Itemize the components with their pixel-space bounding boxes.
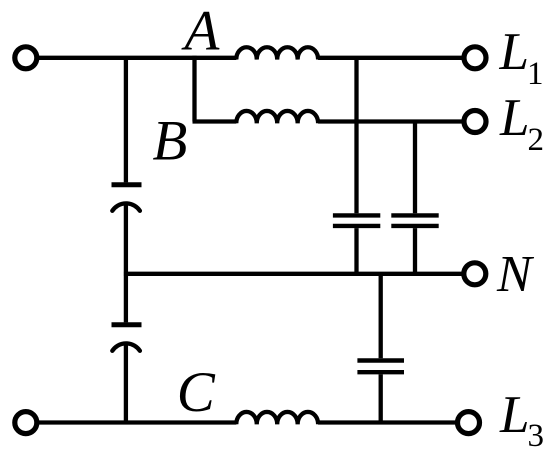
wire left column top (A node down to arrester 1) — [124, 58, 128, 183]
terminal N — [464, 263, 486, 285]
surge arrester G2 top plate — [112, 322, 142, 327]
wire phase-A left segment — [36, 56, 236, 60]
svg-text:C: C — [177, 361, 216, 424]
wire neutral N horizontal — [124, 272, 464, 276]
svg-text:B: B — [153, 110, 188, 173]
terminal input top-left — [15, 47, 37, 69]
inductor L-B (phase B choke) — [236, 111, 318, 123]
wire cap column 2 upper segment — [413, 122, 417, 214]
wire phase-B right segment to L2 — [318, 119, 464, 123]
wire phase-C left segment — [36, 420, 236, 424]
surge arrester G1 arc electrode — [112, 203, 140, 210]
wire cap column 3 upper segment — [379, 274, 383, 359]
inductor L-A (phase A choke) — [236, 47, 318, 59]
wire cap column 2 lower segment — [413, 228, 417, 274]
svg-text:N: N — [496, 246, 535, 303]
capacitor C1 bottom plate — [333, 224, 380, 228]
capacitor C3 top plate — [357, 358, 404, 362]
capacitor C3 bottom plate — [357, 370, 404, 374]
capacitor C2 top plate — [391, 213, 438, 217]
wire cap column 1 lower segment — [354, 228, 358, 274]
terminal L1 — [464, 47, 486, 69]
wire phase-A right segment to L1 — [318, 56, 464, 60]
wire cap column 3 lower segment — [379, 374, 383, 422]
wire arrester G1 stem down through N to arrester 2 — [124, 204, 128, 323]
wire phase-C right segment to L3 — [318, 420, 458, 424]
terminal L2 — [464, 111, 486, 133]
wire cap column 1 upper segment — [354, 58, 358, 213]
svg-text:L1: L1 — [499, 23, 544, 92]
terminal input bottom-left — [15, 412, 37, 434]
svg-text:L3: L3 — [499, 386, 544, 454]
surge arrester G2 arc electrode — [112, 343, 140, 350]
capacitor C1 top plate — [333, 213, 380, 217]
svg-text:A: A — [181, 0, 221, 63]
wire phase-B left segment — [193, 119, 237, 123]
svg-text:L2: L2 — [499, 89, 544, 158]
wire arrester G2 stem down to C line — [124, 344, 128, 423]
terminal L3 — [458, 412, 480, 434]
surge arrester G1 top plate — [112, 182, 142, 187]
wire branch A-to-B vertical — [192, 56, 196, 122]
inductor L-C (phase C choke) — [236, 412, 318, 424]
capacitor C2 bottom plate — [391, 224, 438, 228]
